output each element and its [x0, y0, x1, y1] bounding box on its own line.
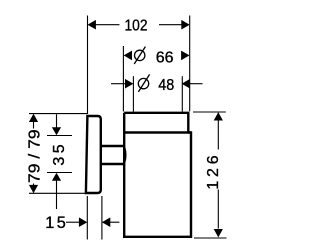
svg-text:79 / 79: 79 / 79	[27, 129, 44, 183]
dim 126 top arrow	[214, 112, 223, 120]
extension line plate top	[29, 113, 88, 115]
holder ring top line	[124, 131, 191, 133]
dim 35 upper leader line	[56, 114, 58, 128]
dim diameter 66 left arrow	[124, 51, 132, 61]
dim diameter 48 tail right	[189, 83, 202, 85]
tumbler glass top band	[124, 113, 188, 133]
dim 15 left arrow	[79, 217, 87, 227]
dim 102 left arrow	[88, 20, 96, 30]
dim 35 lower leader line	[56, 180, 58, 209]
dim 15 tail right	[110, 221, 119, 223]
dim 15 right arrow	[102, 217, 110, 227]
svg-text:48: 48	[158, 77, 174, 94]
dim diameter 48 right arrow	[182, 79, 190, 89]
dim 35 upper arrow	[52, 127, 61, 135]
dim diameter 66 right arrow	[181, 51, 189, 61]
dim diameter 48 left arrow	[125, 79, 133, 89]
dim 79/79 top arrow	[29, 114, 38, 122]
tumbler body	[124, 113, 191, 237]
extension line 15 right	[101, 196, 103, 240]
svg-text:15: 15	[45, 214, 68, 232]
dim 126 line	[217, 121, 219, 229]
svg-text:66: 66	[156, 49, 174, 66]
dim 79/79 line bottom segment	[33, 184, 35, 186]
dim 35 upper tick	[47, 135, 72, 137]
dim 35 lower tick	[47, 172, 72, 174]
wall plate	[86, 116, 101, 193]
dim 79/79 line top segment	[33, 122, 35, 129]
extension line plate bottom	[29, 192, 88, 194]
extension line top of 126	[193, 111, 226, 113]
extension line left of 66	[122, 46, 124, 112]
dim 126 bottom arrow	[214, 229, 223, 237]
svg-text:102: 102	[125, 18, 148, 35]
dim 102 line	[96, 24, 183, 26]
extension line 15 left	[86, 196, 88, 240]
extension line right of 48	[181, 76, 183, 111]
dim 102 right arrow	[181, 20, 189, 30]
svg-text:35: 35	[51, 141, 68, 166]
dim 35 lower arrow	[52, 173, 61, 181]
dim 15 line	[66, 221, 79, 223]
diameter symbol for 48	[138, 74, 149, 92]
extension line left of 48	[132, 76, 134, 111]
extension line bottom of 126	[194, 237, 227, 239]
svg-text:126: 126	[205, 152, 222, 190]
extension line left of 102	[87, 16, 89, 115]
diameter symbol for 66	[134, 47, 145, 64]
dim diameter 48 tail left	[111, 83, 126, 85]
dim 79/79 bottom arrow	[29, 185, 38, 193]
extension line right of 102/66	[189, 16, 191, 112]
mounting arm	[101, 146, 126, 164]
